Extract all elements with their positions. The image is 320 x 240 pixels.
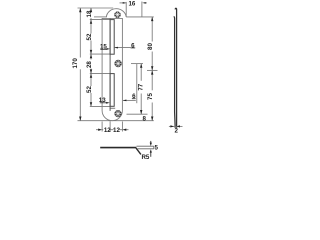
wire ext y16.9 left xyxy=(94,16,106,18)
dim 6 upper slot xyxy=(114,42,135,49)
wire ext y114.2 xyxy=(127,113,148,115)
svg-text:77: 77 xyxy=(137,83,144,90)
wire ext bottom y120.7 xyxy=(78,120,154,122)
lip bar end cap xyxy=(153,146,155,149)
plate body front view xyxy=(102,18,122,120)
leader 13 xyxy=(99,97,110,104)
dim 170 line xyxy=(79,8,81,58)
wire ext y63.6 xyxy=(131,63,143,65)
svg-text:80: 80 xyxy=(147,43,154,50)
slot upper xyxy=(110,20,114,55)
lip bar top xyxy=(137,145,154,147)
dim line 80/75 chain xyxy=(151,17,153,42)
bottom dim 12 12 xyxy=(96,121,129,131)
lip bend diagonal xyxy=(136,148,141,154)
plate dome tab xyxy=(106,9,126,18)
bend line xyxy=(109,19,111,111)
slot lower extra bottom line xyxy=(110,107,116,109)
plate edge thick xyxy=(100,147,136,149)
svg-text:170: 170 xyxy=(72,58,79,69)
wire ext y70.4 xyxy=(147,69,158,71)
svg-text:18: 18 xyxy=(86,10,93,17)
dim 16 top xyxy=(120,1,148,17)
arrows left dims xyxy=(79,8,92,121)
svg-text:8: 8 xyxy=(142,115,146,122)
screw hole top xyxy=(114,12,120,18)
dim line 77 xyxy=(140,64,142,81)
svg-text:16: 16 xyxy=(128,1,135,8)
right side dims xyxy=(126,17,157,121)
svg-text:R5: R5 xyxy=(141,154,149,160)
svg-text:52: 52 xyxy=(86,86,93,93)
screw hole bottom xyxy=(115,110,122,117)
arrow up xyxy=(150,152,152,156)
wire ext y106.4 xyxy=(90,105,110,107)
svg-text:5: 5 xyxy=(154,144,158,151)
svg-text:12: 12 xyxy=(113,127,120,134)
chain line x91 xyxy=(90,8,92,10)
leader 15 xyxy=(100,43,110,50)
svg-text:28: 28 xyxy=(86,61,93,68)
side view profile xyxy=(174,8,177,128)
svg-text:12: 12 xyxy=(104,127,111,134)
wire ext y73.6 xyxy=(90,73,110,75)
wire ext y19.6 xyxy=(90,19,110,21)
arrow down xyxy=(150,141,152,144)
svg-text:2: 2 xyxy=(174,128,178,135)
wire vertical x136.8 xyxy=(136,64,138,104)
lip bar bottom xyxy=(137,148,154,150)
svg-text:75: 75 xyxy=(147,93,154,100)
dim 2 thickness xyxy=(169,125,183,134)
wire ext y54.1 xyxy=(90,53,110,55)
screw hole middle xyxy=(115,60,122,67)
dim 6 lower slot xyxy=(123,93,136,101)
svg-text:52: 52 xyxy=(86,33,93,40)
slot lower xyxy=(110,74,114,107)
wire ext y16.9 right xyxy=(126,16,154,18)
detail view lip xyxy=(100,141,158,161)
wire ext top y8 xyxy=(78,7,114,9)
svg-text:6: 6 xyxy=(132,93,136,100)
